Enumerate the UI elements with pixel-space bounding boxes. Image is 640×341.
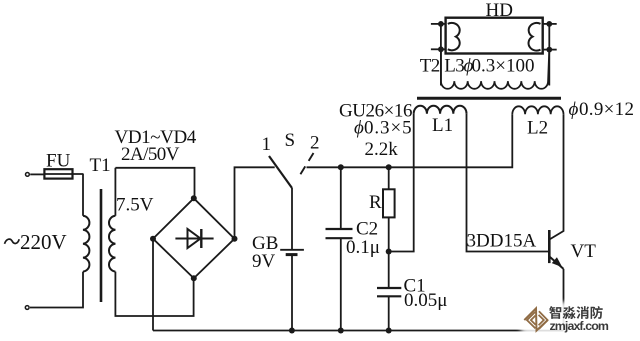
svg-text:L2: L2 bbox=[527, 118, 548, 139]
svg-text:ϕ: ϕ bbox=[354, 118, 364, 139]
svg-text:0.05μ: 0.05μ bbox=[404, 290, 447, 311]
svg-text:7.5V: 7.5V bbox=[116, 195, 154, 216]
svg-text:ϕ: ϕ bbox=[569, 99, 579, 120]
svg-text:1: 1 bbox=[262, 134, 272, 155]
svg-text:T1: T1 bbox=[90, 155, 111, 176]
svg-text:L1: L1 bbox=[432, 115, 453, 136]
svg-text:2: 2 bbox=[310, 133, 320, 154]
svg-text:3DD15A: 3DD15A bbox=[467, 231, 537, 252]
svg-text:0.1μ: 0.1μ bbox=[346, 237, 380, 258]
svg-text:2A/50V: 2A/50V bbox=[121, 144, 180, 165]
svg-text:S: S bbox=[285, 130, 296, 151]
svg-text:9V: 9V bbox=[252, 251, 276, 272]
svg-text:0.9×12: 0.9×12 bbox=[579, 99, 634, 120]
svg-text:FU: FU bbox=[46, 151, 71, 172]
svg-text:0.3×5: 0.3×5 bbox=[364, 118, 412, 139]
svg-text:R: R bbox=[369, 192, 382, 213]
svg-text:VT: VT bbox=[571, 241, 597, 262]
svg-text:L3: L3 bbox=[444, 56, 464, 77]
svg-text:220V: 220V bbox=[20, 230, 67, 254]
svg-text:HD: HD bbox=[486, 0, 513, 21]
svg-text:0.3×100: 0.3×100 bbox=[472, 56, 535, 77]
svg-text:zmjaxf.com: zmjaxf.com bbox=[550, 319, 609, 333]
svg-text:2.2k: 2.2k bbox=[365, 139, 399, 160]
svg-text:T2: T2 bbox=[420, 56, 440, 77]
